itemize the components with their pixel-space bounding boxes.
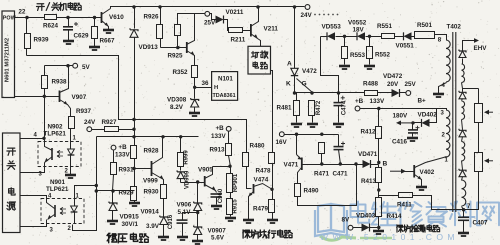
resistor R938 [42, 66, 68, 97]
transformer T402 label [438, 24, 462, 44]
secondary rectifier stack [459, 59, 479, 210]
svg-text:36: 36 [202, 80, 210, 87]
+B 133V mid terminal [355, 98, 447, 111]
IC N601 M37211M2 [2, 11, 17, 98]
svg-text:8V: 8V [342, 217, 351, 224]
diode VD402 [413, 109, 438, 127]
diode VD553 [321, 24, 357, 41]
EHV diode and arrow [459, 38, 487, 57]
optocoupler N902 TLP621 [34, 124, 82, 178]
svg-text:+B: +B [216, 125, 225, 132]
svg-text:22: 22 [19, 9, 26, 16]
svg-text:C471: C471 [333, 171, 349, 178]
transformer core [453, 32, 456, 212]
svg-text:G: G [302, 81, 307, 88]
transistor V999 [135, 137, 164, 185]
svg-text:R479: R479 [253, 206, 269, 213]
resistor R667 [89, 18, 115, 51]
svg-text:TDA8361: TDA8361 [213, 93, 236, 99]
svg-text:EHV: EHV [474, 45, 488, 52]
node pin7 / capacitor C407 [458, 204, 488, 236]
svg-text:R488: R488 [363, 81, 379, 88]
dotted marks [314, 14, 338, 16]
svg-text:133V: 133V [115, 152, 131, 159]
svg-text:R413: R413 [361, 178, 377, 185]
watermark green swoosh [320, 236, 356, 240]
svg-text:WWW.520101.COM: WWW.520101.COM [320, 232, 459, 242]
svg-text:V211: V211 [264, 26, 279, 33]
N902 wiring [21, 97, 77, 179]
svg-text:133V: 133V [370, 98, 386, 105]
svg-text:VD402: VD402 [418, 112, 438, 119]
svg-text:H: H [214, 85, 218, 91]
wire 5V rail [45, 63, 91, 71]
title 开/关机电路 [37, 3, 82, 11]
svg-text:POW: POW [3, 16, 17, 22]
svg-text:R501: R501 [417, 22, 433, 29]
svg-text:N601 M37211M2: N601 M37211M2 [4, 38, 10, 82]
svg-text:25V: 25V [204, 20, 216, 27]
pin 22 [19, 9, 26, 16]
resistor R412 [361, 109, 382, 163]
svg-text:R551: R551 [377, 23, 393, 30]
resistor R999 [178, 137, 190, 171]
svg-text:R667: R667 [100, 38, 116, 45]
svg-text:VD472: VD472 [383, 73, 403, 80]
resistor R481 [277, 93, 303, 128]
terminal 25V mid [204, 11, 216, 26]
svg-text:V0551: V0551 [396, 43, 415, 50]
svg-text:V402: V402 [420, 169, 435, 176]
label 稳压电路 [107, 233, 149, 243]
svg-text:TLP621: TLP621 [44, 131, 67, 138]
optocoupler N901 TLP621 [41, 179, 84, 234]
svg-text:R471: R471 [314, 171, 330, 178]
resistor R501 [415, 22, 447, 41]
resistor R490 [295, 165, 357, 206]
wire collector node [213, 165, 232, 168]
zener VD913 [130, 7, 158, 120]
B+ label [418, 98, 427, 105]
wire IC to V907 base [15, 95, 60, 98]
wire lower-left bus [27, 56, 247, 153]
svg-text:+B: +B [355, 98, 364, 105]
svg-text:R481: R481 [277, 105, 293, 112]
resistor R478 [243, 153, 272, 189]
resistor R937 [69, 108, 92, 142]
svg-text:3.9V: 3.9V [146, 223, 160, 230]
terminal +B 133V right [211, 125, 231, 140]
box 开关电源 [3, 133, 21, 233]
wire left drop to VD915 [73, 137, 113, 231]
svg-text:C960: C960 [218, 188, 224, 203]
capacitor C474 [333, 93, 348, 128]
resistor R352 [173, 66, 198, 88]
svg-text:R352: R352 [173, 69, 189, 76]
watermark book icon [315, 204, 347, 236]
svg-text:R472: R472 [316, 100, 322, 115]
resistor R488 [361, 81, 392, 96]
svg-text:V610: V610 [109, 14, 124, 21]
diode VD471 [358, 151, 379, 168]
zener VD472 [383, 73, 406, 97]
svg-text:VD553: VD553 [322, 24, 342, 31]
resistor R939 [25, 18, 50, 56]
svg-text:R915: R915 [233, 199, 239, 214]
svg-text:V0211: V0211 [226, 9, 244, 16]
zener VD915 [107, 191, 139, 229]
resistor R479 [253, 200, 278, 224]
wire thyristor cathode bus [293, 91, 365, 94]
N901 wiring [21, 186, 97, 227]
svg-text:133V: 133V [211, 133, 227, 140]
svg-text:R411: R411 [397, 202, 412, 209]
svg-text:8: 8 [438, 37, 442, 44]
resistor R211 [229, 28, 251, 44]
IC N101 TDA8361 [212, 72, 238, 101]
svg-text:R412: R412 [361, 129, 377, 136]
resistor R928 [131, 146, 160, 187]
svg-text:C474: C474 [342, 100, 348, 115]
svg-text:N901: N901 [50, 179, 66, 186]
transistor V402 [390, 157, 447, 191]
svg-text:R553: R553 [350, 52, 366, 59]
focus adjust arrows [484, 110, 493, 163]
svg-text:VD471: VD471 [358, 151, 378, 158]
svg-text:24V: 24V [301, 12, 313, 19]
svg-text:30V/1: 30V/1 [122, 221, 139, 228]
svg-text:18V: 18V [353, 27, 365, 34]
resistor R915 [225, 193, 239, 222]
transistor V907 [60, 66, 87, 117]
watermark characters [351, 202, 370, 223]
svg-text:C416: C416 [392, 139, 408, 146]
svg-text:K: K [286, 81, 291, 88]
resistor R931 [111, 151, 135, 193]
svg-text:C629: C629 [74, 33, 90, 40]
transistor V610 [100, 9, 125, 34]
svg-text:R913: R913 [210, 147, 226, 154]
svg-text:VD999: VD999 [185, 170, 191, 189]
terminal 25V right [405, 81, 417, 95]
resistor R929 [113, 187, 141, 207]
svg-text:TLP621: TLP621 [46, 186, 69, 193]
terminal 24V mid [84, 119, 105, 132]
capacitor C629 [63, 18, 89, 45]
wire gate loop to VD553 line [321, 37, 339, 93]
bus 133V regulation [97, 135, 199, 138]
svg-text:V0914: V0914 [141, 209, 160, 216]
resistor R411 [379, 193, 464, 210]
svg-text:R929: R929 [119, 190, 135, 197]
svg-text:R926: R926 [144, 14, 160, 21]
16V terminal line [276, 132, 339, 146]
svg-text:25V: 25V [405, 81, 417, 88]
zener VD308 [167, 88, 200, 117]
svg-text:A: A [287, 61, 292, 68]
svg-text:8.2V: 8.2V [170, 104, 184, 111]
resistor R413 [361, 165, 382, 198]
transistor V474 [243, 177, 273, 224]
180V output arrow [393, 113, 415, 126]
terminal 8V / diode VD403 [342, 213, 379, 232]
transformer primary winding 3-1 [441, 109, 450, 164]
wire amp block to R480 [271, 71, 273, 153]
resistor R913 [210, 132, 232, 167]
svg-text:R414: R414 [387, 213, 403, 220]
svg-text:R478: R478 [256, 168, 272, 175]
svg-text:R999: R999 [184, 150, 190, 165]
zener VD914 [141, 209, 170, 241]
terminal +B 133V left [111, 144, 130, 159]
focus divider column [464, 89, 483, 210]
terminal 24V top [301, 5, 313, 19]
svg-text:N101: N101 [218, 76, 233, 83]
transformer primary winding 8-4 [446, 40, 450, 82]
resistor R553 [339, 37, 366, 70]
svg-text:VD913: VD913 [139, 44, 159, 51]
svg-text:VD308: VD308 [167, 97, 187, 104]
zener VD999 [177, 170, 190, 189]
resistor R551 [377, 23, 404, 39]
transistor V905 [198, 167, 217, 193]
capacitor C416 [392, 123, 420, 146]
svg-text:N902: N902 [48, 124, 64, 131]
resistor R472 [307, 100, 322, 127]
svg-text:5.6V: 5.6V [211, 235, 225, 242]
svg-text:5V: 5V [82, 64, 91, 71]
diode VD551 [396, 32, 415, 49]
svg-text:R928: R928 [144, 148, 160, 155]
wire pin22 bus [15, 16, 100, 19]
svg-text:V0552: V0552 [348, 20, 367, 27]
svg-text:B: B [383, 161, 388, 168]
svg-text:V907: V907 [72, 94, 87, 101]
svg-text:+B: +B [118, 144, 127, 151]
capacitor C916 [168, 213, 198, 241]
svg-text:R938: R938 [52, 79, 68, 86]
svg-text:VD403: VD403 [356, 213, 376, 220]
resistor R414 [373, 198, 402, 235]
svg-text:C407: C407 [473, 220, 489, 227]
svg-text:V0907: V0907 [208, 228, 227, 235]
wire VD913 column down [132, 120, 135, 146]
transistor V471 [284, 135, 302, 184]
resistor R926 [144, 7, 163, 48]
zener V906 [177, 183, 202, 216]
node A / thyristor V472 [286, 7, 317, 93]
resistor R471 [314, 143, 330, 178]
label 保护检测电路 [397, 225, 440, 232]
svg-text:R480: R480 [250, 143, 266, 150]
svg-text:R211: R211 [231, 37, 246, 44]
svg-text:24V: 24V [84, 119, 96, 126]
capacitor C960 [211, 188, 225, 209]
svg-text:C916: C916 [168, 214, 174, 229]
transistor V211 [251, 7, 279, 47]
svg-text:V472: V472 [302, 68, 317, 75]
svg-text:V474: V474 [254, 177, 269, 184]
svg-text:20V: 20V [387, 81, 399, 88]
svg-text:R937: R937 [76, 108, 92, 115]
wire V905 base line [181, 180, 205, 183]
node B [377, 161, 387, 168]
svg-text:R925: R925 [168, 53, 184, 60]
svg-text:R930: R930 [144, 189, 160, 196]
svg-text:R939: R939 [34, 37, 50, 44]
resistor R480 [250, 143, 275, 200]
resistor R925 [161, 14, 205, 60]
svg-text:16V: 16V [276, 139, 288, 146]
wire top bus 24V rail [111, 5, 305, 8]
svg-text:R931: R931 [119, 167, 135, 174]
svg-text:V999: V999 [143, 178, 158, 185]
svg-text:V906: V906 [177, 202, 192, 209]
resistor R930 [144, 185, 167, 217]
capacitor C471 [333, 135, 349, 178]
block 功放电路 [248, 46, 271, 74]
svg-text:R927: R927 [102, 119, 118, 126]
label 保护执行电路 [243, 230, 292, 238]
resistor R624 [43, 15, 59, 30]
transistor V911 [187, 14, 195, 66]
svg-text:V471: V471 [284, 162, 299, 169]
protection base line [302, 162, 363, 165]
svg-text:R552: R552 [375, 52, 391, 59]
svg-text:V905: V905 [198, 167, 213, 174]
svg-text:T402: T402 [447, 24, 462, 31]
svg-text:RP901: RP901 [233, 173, 239, 192]
resistor R552 [364, 37, 391, 70]
svg-text:B+: B+ [418, 98, 427, 105]
potentiometer RP901 [227, 167, 240, 193]
svg-text:VD915: VD915 [120, 214, 140, 221]
resistor R927 [102, 119, 136, 132]
wire pin36 to N101 [193, 80, 212, 89]
zener VD907 [192, 213, 226, 245]
svg-text:180V: 180V [393, 113, 409, 120]
diode VD211 [210, 9, 244, 31]
svg-text:R490: R490 [304, 188, 320, 195]
svg-text:R624: R624 [43, 23, 59, 30]
zener VD552 [348, 20, 382, 41]
transformer pin 4 ground [433, 83, 447, 98]
